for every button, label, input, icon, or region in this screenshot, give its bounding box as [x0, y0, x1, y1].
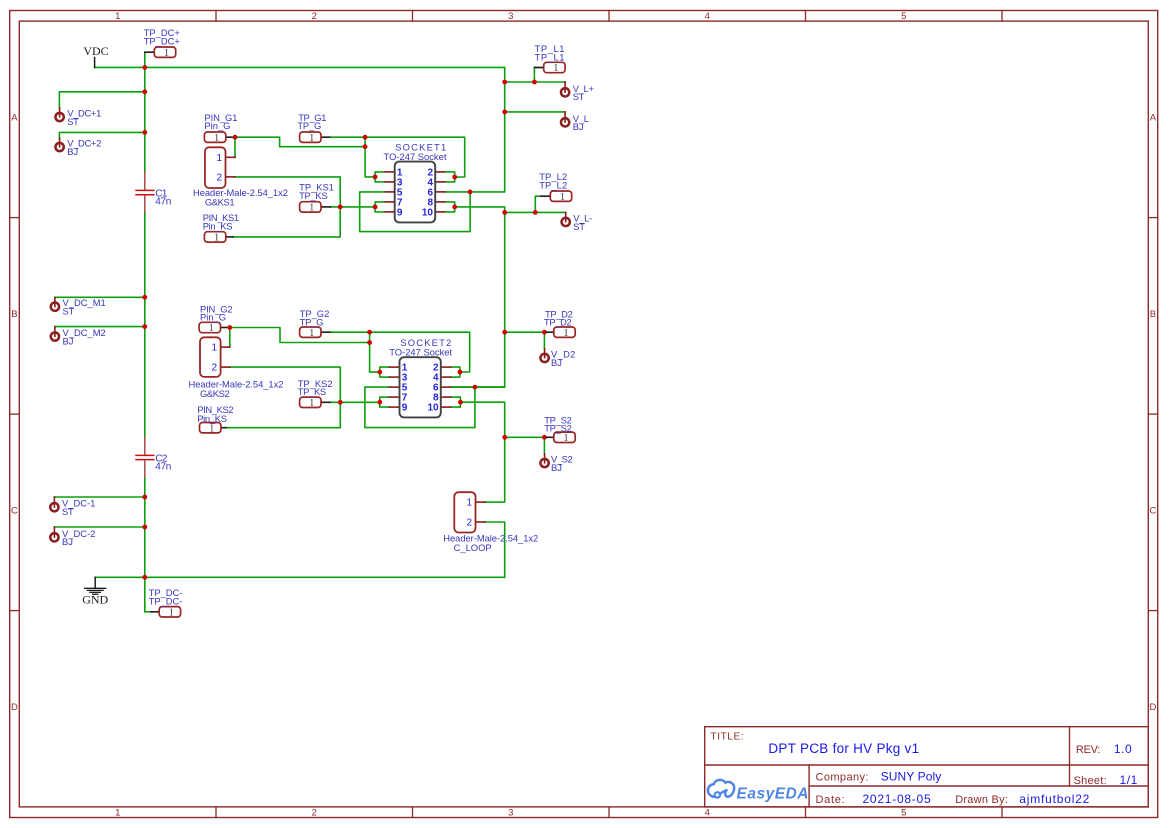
wire header G&KS2 pin2 net	[226, 367, 340, 428]
label C_LOOP part	[443, 533, 538, 544]
svg-text:1/1: 1/1	[1120, 773, 1138, 787]
test point TP_L2 (pin 1)	[541, 191, 572, 203]
ground symbol GND	[82, 577, 108, 606]
svg-text:EasyEDA: EasyEDA	[737, 785, 809, 802]
title block grid	[705, 727, 1149, 807]
wire C_LOOP pin 2 to ground	[485, 522, 505, 577]
svg-text:TO-247 Socket: TO-247 Socket	[389, 346, 452, 357]
wire PIN_G1 to header G&KS1 pin 1	[234, 137, 236, 157]
svg-text:1: 1	[115, 11, 120, 22]
test point TP_DC+ (pin 1)	[145, 47, 176, 59]
svg-text:TITLE:: TITLE:	[711, 732, 745, 743]
svg-text:Pin_KS: Pin_KS	[203, 220, 233, 231]
svg-text:BJ: BJ	[551, 462, 562, 473]
label header2 refdes	[200, 388, 229, 399]
wire PIN_G2 jog to gate bus 2	[230, 328, 370, 343]
test point TP_KS1 (pin 1)	[300, 202, 331, 214]
junction PIN_G2 output	[227, 325, 232, 330]
socket SOCKET1 pin numbers 1-10	[397, 167, 434, 218]
test point TP_KS2 (pin 1)	[300, 397, 330, 409]
title block REV value	[1114, 742, 1132, 756]
wire PIN_G1 jog to gate bus	[235, 137, 365, 147]
test point TP_L1 (pin 1)	[534, 62, 565, 74]
wire socket1 pin7-9 tie	[375, 202, 385, 212]
svg-text:Pin_G: Pin_G	[200, 312, 226, 323]
label TP_G1 name	[298, 112, 326, 123]
capacitor C2 47n	[136, 437, 154, 477]
label SOCKET2 refdes	[400, 337, 452, 348]
svg-text:B: B	[1150, 309, 1156, 320]
header C_LOOP Header-Male-2.54_1x2 body with pin stubs	[454, 492, 485, 532]
svg-text:Company:: Company:	[816, 772, 869, 784]
junction V_DC_M2	[142, 324, 147, 329]
port V_DC_M2 BJ	[51, 327, 106, 347]
svg-text:C_LOOP: C_LOOP	[454, 542, 492, 553]
net flag VDC	[83, 44, 108, 67]
svg-text:1: 1	[214, 133, 219, 144]
svg-text:1: 1	[564, 328, 569, 339]
wire TP_S2 branch	[505, 436, 545, 438]
wire socket1 pin2-4 tie	[445, 172, 455, 182]
header G&KS1 Header-Male-2.54_1x2 body with pin stubs	[205, 147, 235, 188]
port V_DC-1 ST	[50, 497, 95, 517]
svg-text:GND: GND	[82, 592, 108, 606]
label TP_DC- value	[149, 595, 183, 606]
junction V_L+ node	[502, 80, 507, 85]
wire socket2 pin8-10 tie	[451, 397, 461, 407]
label SOCKET1 part	[384, 151, 447, 162]
svg-text:A: A	[1150, 112, 1157, 123]
label TP_DC+ name	[144, 27, 181, 38]
svg-text:SUNY Poly: SUNY Poly	[881, 770, 942, 784]
wire left bus lower segment	[144, 477, 146, 612]
junction gate bus lower	[363, 144, 368, 149]
wire V_DC_M2 branch	[55, 326, 145, 328]
header G&KS1 pin numbers 1-2	[216, 153, 222, 184]
label TP_S2 value	[544, 423, 571, 434]
label TP_KS1 value	[299, 190, 327, 201]
svg-text:47n: 47n	[155, 196, 171, 207]
svg-text:10: 10	[422, 207, 434, 218]
port V_L BJ	[561, 112, 589, 132]
label C1 value	[155, 196, 171, 207]
svg-text:1: 1	[209, 323, 214, 334]
capacitor C1 47n	[136, 172, 154, 212]
wire V_L branch	[505, 111, 565, 113]
label TP_L1 value	[535, 51, 566, 62]
wire V_L- branch	[505, 211, 566, 213]
svg-text:A: A	[11, 112, 18, 123]
label PIN_KS1 name	[203, 212, 239, 223]
junction V_DC+1	[142, 89, 147, 94]
junction socket2 pin6	[473, 385, 478, 390]
svg-text:2: 2	[216, 172, 222, 183]
title block TITLE label	[711, 732, 745, 743]
junction V_L- node	[502, 210, 507, 215]
wire socket2 pin6 to right bus	[451, 386, 505, 388]
svg-text:1: 1	[164, 48, 169, 59]
svg-text:D: D	[1149, 702, 1156, 713]
port V_DC-2 BJ	[50, 527, 95, 547]
wire TP_G1 to socket1 pins 2-4	[330, 137, 465, 177]
junction TP_L2	[533, 210, 538, 215]
wire PIN_G2 to header G&KS2 pin 1	[229, 328, 231, 348]
wire TP_S2 pin stub	[544, 436, 546, 438]
wire socket2 pin5 loop	[365, 387, 475, 428]
svg-text:1.0: 1.0	[1114, 742, 1132, 756]
wire V_DC+1 branch	[59, 92, 144, 108]
svg-text:1: 1	[214, 233, 219, 244]
junction V_L node	[502, 110, 507, 115]
svg-text:4: 4	[705, 808, 710, 819]
svg-text:TP_G: TP_G	[297, 120, 321, 131]
test point TP_DC- (pin 1)	[151, 607, 181, 619]
svg-text:2: 2	[211, 363, 217, 374]
svg-text:4: 4	[705, 11, 710, 22]
EasyEDA logo cloud	[708, 780, 734, 798]
label C2 refdes	[155, 453, 168, 464]
label header1 refdes	[205, 197, 234, 208]
label TP_L2 name	[539, 171, 567, 182]
title block REV label	[1076, 744, 1100, 756]
socket SOCKET2 TO-247 body with pin stubs	[390, 357, 451, 417]
label TP_G2 name	[300, 308, 330, 319]
port V_S2 BJ	[540, 454, 572, 473]
junction V_DC-1	[142, 495, 147, 500]
svg-text:1: 1	[309, 398, 314, 409]
svg-text:TP_D2: TP_D2	[544, 316, 572, 327]
wire TP_DC- elbow	[145, 611, 151, 613]
svg-text:C: C	[11, 505, 18, 516]
pin header PIN_G1 (pin 1)	[204, 132, 232, 144]
label PIN_G1 value	[204, 120, 230, 131]
label TP_G2 value	[300, 316, 324, 327]
label TP_D2 name	[545, 308, 573, 319]
svg-text:2: 2	[466, 518, 472, 529]
port V_L- ST	[562, 212, 593, 231]
svg-text:10: 10	[427, 403, 439, 414]
junction V_DC_M1	[142, 295, 147, 300]
svg-text:BJ: BJ	[67, 146, 78, 157]
junction TP_L1	[532, 80, 537, 85]
wire left bus upper segment	[144, 67, 146, 172]
junction GND node	[142, 575, 147, 580]
junction gate bus 2 upper	[367, 330, 372, 335]
title block title value	[768, 741, 919, 756]
svg-text:47n: 47n	[155, 461, 171, 472]
wire header G&KS1 pin2 net	[233, 177, 340, 237]
label C2 value	[155, 461, 171, 472]
svg-text:Drawn By:: Drawn By:	[955, 794, 1008, 806]
svg-text:2: 2	[312, 808, 317, 819]
svg-text:TP_DC+: TP_DC+	[144, 36, 181, 47]
svg-text:3: 3	[508, 808, 513, 819]
svg-text:C: C	[1149, 505, 1156, 516]
svg-text:BJ: BJ	[551, 357, 562, 368]
svg-text:G&KS1: G&KS1	[205, 197, 234, 208]
junction socket1 pin6	[468, 190, 473, 195]
wire V_DC+2 branch	[59, 132, 144, 138]
junction TP_S2 node	[502, 435, 507, 440]
wire GND bottom horizontal	[95, 576, 505, 578]
svg-text:Pin_KS: Pin_KS	[197, 413, 227, 424]
wire V_D2 branch	[505, 331, 545, 333]
wire right bus middle segment	[504, 212, 506, 332]
title block Date label	[816, 794, 846, 806]
label SOCKET2 part	[389, 346, 452, 357]
label header2 part	[189, 379, 284, 390]
svg-text:1: 1	[560, 192, 565, 203]
wire gate bus socket2	[370, 332, 380, 372]
svg-text:ST: ST	[573, 91, 585, 102]
label TP_G1 value	[297, 120, 321, 131]
svg-text:TP_G: TP_G	[300, 316, 324, 327]
wire socket1 pin8-10 tie	[445, 202, 455, 212]
label PIN_G2 value	[200, 312, 226, 323]
svg-text:ST: ST	[573, 221, 585, 232]
svg-text:TP_KS: TP_KS	[299, 190, 327, 201]
EasyEDA logo text	[737, 785, 809, 802]
wire socket1 pin1-3 tie	[375, 172, 385, 182]
svg-text:Sheet:: Sheet:	[1074, 775, 1107, 787]
label TP_KS1 name	[299, 182, 334, 193]
svg-text:BJ: BJ	[63, 335, 74, 346]
port V_L+ ST	[561, 82, 595, 102]
junction PIN_G1 output	[233, 135, 238, 140]
svg-text:TP_S2: TP_S2	[544, 423, 571, 434]
title block Sheet value	[1120, 773, 1138, 787]
svg-text:TP_DC-: TP_DC-	[149, 595, 183, 606]
pin header PIN_KS2 (pin 1)	[200, 423, 227, 435]
label C1 refdes	[155, 188, 168, 199]
svg-text:2: 2	[312, 11, 317, 22]
junction socket2 pins7-9	[377, 400, 382, 405]
wire TP_DC+ riser	[144, 52, 146, 67]
title block DrawnBy label	[955, 794, 1008, 806]
svg-text:1: 1	[115, 808, 120, 819]
junction TP_S2/V_S2	[542, 435, 547, 440]
svg-text:D: D	[11, 702, 18, 713]
svg-text:Pin_G: Pin_G	[204, 120, 230, 131]
junction TP_KS2	[338, 400, 343, 405]
title block Company label	[816, 772, 869, 784]
svg-text:2021-08-05: 2021-08-05	[863, 792, 932, 806]
socket SOCKET1 TO-247 body with pin stubs	[385, 162, 444, 223]
wire V_DC-1 branch	[54, 496, 144, 498]
svg-text:ST: ST	[63, 306, 75, 317]
wire socket2 pin1-3 tie	[380, 367, 390, 377]
junction socket2 pins2-4	[458, 370, 463, 375]
label TP_D2 value	[544, 316, 572, 327]
svg-text:BJ: BJ	[573, 121, 584, 132]
svg-text:VDC: VDC	[83, 44, 108, 58]
wire TP_KS2 to socket2 pins 7-9	[330, 401, 380, 403]
label PIN_KS2 value	[197, 413, 227, 424]
junction at VDC/TP_DC+	[142, 65, 147, 70]
junction socket1 pins8-10	[452, 205, 457, 210]
svg-text:1: 1	[309, 133, 314, 144]
svg-text:3: 3	[508, 11, 513, 22]
wire TP_D2 pin stub	[544, 331, 546, 333]
svg-text:9: 9	[397, 207, 403, 218]
wire right bus to C_LOOP pin 1	[485, 437, 505, 502]
junction gate bus 2 lower	[367, 340, 372, 345]
svg-text:Date:: Date:	[816, 794, 846, 806]
svg-text:5: 5	[901, 11, 906, 22]
title block Company value	[881, 770, 942, 784]
label PIN_KS1 value	[203, 220, 233, 231]
wire right bus top segment	[445, 67, 505, 191]
title block DrawnBy value	[1019, 792, 1090, 806]
svg-text:TP_L1: TP_L1	[535, 51, 566, 62]
label C_LOOP refdes	[454, 542, 492, 553]
junction gate bus upper	[363, 135, 368, 140]
svg-text:B: B	[11, 309, 17, 320]
label TP_KS2 value	[298, 386, 326, 397]
wire VDC top horizontal	[95, 66, 505, 68]
svg-text:ST: ST	[67, 116, 79, 127]
label SOCKET1 refdes	[395, 142, 447, 153]
wire TP_L1 elbow	[534, 68, 543, 83]
svg-text:TO-247 Socket: TO-247 Socket	[384, 151, 447, 162]
wire socket2 pin7-9 tie	[380, 397, 390, 407]
wire socket1 pins 8-10 to V_L- node	[455, 207, 505, 213]
svg-text:ST: ST	[62, 506, 74, 517]
wire V_DC-2 branch	[54, 526, 144, 528]
junction TP_D2/V_D2	[542, 330, 547, 335]
title block Date value	[863, 792, 932, 806]
junction V_DC-2	[142, 525, 147, 530]
wire left bus middle segment	[144, 212, 146, 437]
title block Sheet label	[1074, 775, 1107, 787]
label TP_L1 name	[535, 43, 566, 54]
wire TP_G2 to socket2 pins 2-4	[330, 332, 470, 372]
label header1 part	[193, 187, 288, 198]
svg-text:1: 1	[309, 328, 314, 339]
test point TP_G1 (pin 1)	[300, 132, 330, 144]
wire V_D2 port drop	[543, 332, 545, 349]
header G&KS2 pin numbers 1-2	[211, 343, 217, 374]
svg-text:5: 5	[901, 808, 906, 819]
socket SOCKET2 pin numbers 1-10	[402, 363, 439, 414]
svg-text:1: 1	[209, 423, 214, 434]
label TP_S2 name	[544, 415, 571, 426]
svg-text:G&KS2: G&KS2	[200, 388, 229, 399]
svg-text:REV:: REV:	[1076, 744, 1100, 756]
pin header PIN_G2 (pin 1)	[199, 322, 227, 334]
test point TP_D2 (pin 1)	[547, 327, 576, 339]
wire TP_KS1 to socket1 pins 7-9	[330, 206, 375, 208]
svg-text:DPT PCB for HV Pkg v1: DPT PCB for HV Pkg v1	[768, 741, 919, 756]
junction socket2 pins1-3	[377, 370, 382, 375]
port V_DC+2 BJ	[55, 138, 101, 157]
wire socket1 pin5 loop	[360, 192, 470, 232]
port V_DC_M1 ST	[51, 297, 106, 316]
label PIN_G1 name	[204, 112, 237, 123]
svg-text:TP_KS: TP_KS	[298, 386, 326, 397]
wire TP_L2 elbow	[535, 196, 541, 212]
label TP_KS2 name	[298, 378, 333, 389]
svg-text:1: 1	[211, 343, 217, 354]
svg-text:1: 1	[169, 607, 174, 618]
junction V_D2 node	[502, 330, 507, 335]
pin header PIN_KS1 (pin 1)	[204, 232, 233, 244]
wire V_L+ branch	[505, 81, 565, 83]
svg-text:1: 1	[216, 153, 222, 164]
svg-text:1: 1	[553, 63, 558, 74]
wire socket2 pin2-4 tie	[451, 367, 460, 377]
header C_LOOP pin numbers 1-2	[466, 498, 472, 529]
junction TP_KS1	[338, 205, 343, 210]
port V_D2 BJ	[540, 348, 575, 367]
junction socket1 pins2-4	[452, 175, 457, 180]
label PIN_G2 name	[200, 304, 232, 315]
junction socket1 pins7-9	[373, 205, 378, 210]
port V_DC+1 ST	[55, 108, 101, 127]
wire gate bus socket1	[365, 137, 375, 177]
svg-text:BJ: BJ	[62, 536, 73, 547]
svg-text:TP_L2: TP_L2	[539, 180, 567, 191]
wire V_S2 port drop	[543, 437, 545, 454]
junction socket1 pins1-3	[373, 175, 378, 180]
svg-text:ajmfutbol22: ajmfutbol22	[1019, 792, 1090, 806]
junction socket2 pins8-10	[458, 400, 463, 405]
svg-text:1: 1	[564, 433, 569, 444]
label TP_DC- name	[149, 587, 183, 598]
svg-text:1: 1	[466, 498, 472, 509]
junction V_DC+2	[142, 130, 147, 135]
label PIN_KS2 name	[197, 404, 233, 415]
test point TP_S2 (pin 1)	[547, 432, 576, 444]
wire socket2 pins 8-10 to TP_S2 node	[460, 402, 504, 437]
wire V_DC_M1 branch	[55, 296, 145, 298]
header G&KS2 Header-Male-2.54_1x2 body with pin stubs	[200, 337, 230, 377]
wire right bus to socket2 pin6	[451, 332, 505, 387]
test point TP_G2 (pin 1)	[300, 327, 330, 339]
svg-text:1: 1	[309, 203, 314, 214]
svg-text:9: 9	[402, 403, 408, 414]
label TP_DC+ value	[144, 36, 181, 47]
label TP_L2 value	[539, 180, 567, 191]
